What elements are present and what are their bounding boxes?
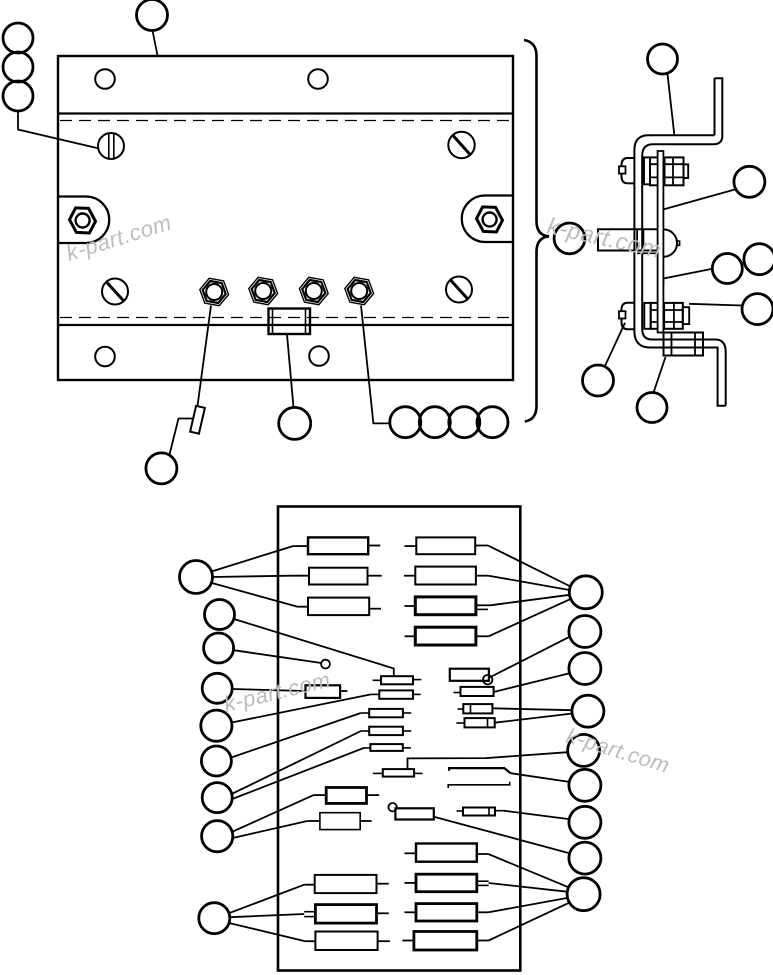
- bar inner bracket lines: [637, 229, 643, 250]
- screw top-left: [98, 133, 124, 159]
- clip upper line: [449, 768, 511, 773]
- callout L7: [202, 783, 232, 813]
- fuse S5: [454, 687, 494, 696]
- leader L1 to F3: [211, 583, 298, 607]
- callout 18: [637, 393, 667, 423]
- fuse I2: [304, 905, 389, 924]
- hole bottom-left: [95, 347, 115, 367]
- leader H1 to R9: [488, 854, 568, 887]
- fuse H2: [405, 874, 489, 892]
- screw top-right: [448, 132, 474, 158]
- screw bottom-right: [446, 277, 472, 303]
- callout 5: [146, 453, 177, 484]
- fuse holder S6: [458, 704, 493, 713]
- callout 15: [744, 244, 773, 275]
- ring terminal ring: [483, 675, 492, 684]
- leader callout16 to bolt tip: [689, 304, 742, 306]
- leader L3 to tiny circle: [234, 650, 322, 663]
- leader G2 to R1: [489, 576, 570, 590]
- fuse G2: [404, 567, 489, 585]
- bracket web outer edge: [634, 150, 650, 348]
- callout 7: [390, 407, 421, 438]
- fuse G3: [405, 597, 491, 615]
- callout 8: [419, 407, 450, 438]
- callout 4: [3, 81, 33, 111]
- plate lower fold line: [58, 324, 513, 326]
- bracket bottom flange upper line with corner: [652, 340, 726, 406]
- callout R2: [569, 616, 601, 648]
- backing strip (white filled, occludes nuts): [658, 151, 664, 333]
- terminal nut 2: [249, 277, 278, 304]
- leader G3 to R1: [490, 595, 570, 606]
- fuse G4: [405, 627, 489, 645]
- upper screw head: [622, 158, 635, 183]
- upper hex nut side view: [650, 157, 684, 185]
- leader L5 to S2: [232, 694, 371, 722]
- cable tag: [190, 406, 205, 434]
- leader S7 to R4: [495, 714, 573, 723]
- tiny index circle: [321, 660, 330, 669]
- leader L1 to F1: [212, 546, 293, 571]
- ring terminal plate: [450, 669, 489, 681]
- left tab lug: [58, 197, 109, 244]
- leader L6 to S3: [231, 713, 360, 758]
- lower screw slot: [619, 311, 626, 318]
- callout R7: [569, 806, 601, 838]
- fuse S4b: [364, 744, 411, 751]
- hole top-left: [95, 69, 115, 89]
- callout 13: [734, 166, 765, 197]
- leader S5 to R3: [494, 673, 569, 692]
- relay block: [306, 685, 348, 698]
- terminal nut 4: [345, 277, 374, 304]
- clip lower line: [448, 782, 510, 788]
- leader L4 to relay: [232, 689, 305, 691]
- callout L4: [202, 673, 232, 703]
- fuse F3: [298, 598, 381, 616]
- leader callout18 to foot: [654, 357, 666, 393]
- curly brace: [524, 40, 549, 422]
- callout R5: [568, 734, 600, 766]
- callout 12: [648, 44, 678, 74]
- leader H2 to R9: [489, 883, 567, 892]
- right tab lug: [462, 196, 513, 243]
- leader L2 to S1: [234, 619, 394, 676]
- callout 9: [449, 407, 480, 438]
- bracket top lip outer edge with corner: [713, 78, 722, 144]
- leader clip to R6: [511, 773, 570, 782]
- plate fuse link end line left: [272, 309, 274, 335]
- plate fuse link end line right: [305, 309, 307, 335]
- right tab hex inner circle: [483, 213, 497, 227]
- callout R3: [569, 653, 601, 685]
- leader nut4 to callout row: [361, 306, 389, 424]
- callout 6: [279, 407, 311, 439]
- foot plate: [664, 333, 704, 356]
- leader S9 to R8: [434, 817, 570, 854]
- plate upper dashed line: [60, 120, 513, 122]
- fuse S2: [371, 690, 421, 698]
- callout L6: [201, 746, 231, 776]
- left tab hex inner circle: [76, 214, 90, 228]
- lower bolt tip: [683, 307, 689, 324]
- leader G4 to R1: [489, 599, 571, 637]
- plate fuse link: [269, 309, 311, 335]
- bracket bottom flange lower line: [650, 348, 726, 406]
- leader tag to callout 5: [170, 419, 193, 455]
- support bar to brace: [598, 229, 658, 250]
- leader L9 to I2: [230, 914, 304, 917]
- leader L8 to B2: [233, 821, 308, 838]
- fuse F2: [291, 568, 382, 585]
- callout R6: [569, 769, 601, 801]
- fuse S9 body: [395, 808, 433, 819]
- upper washer: [644, 157, 650, 184]
- callout R8: [569, 842, 601, 874]
- leader G1 to R1: [488, 546, 571, 587]
- callout R1: [569, 576, 602, 609]
- upper bolt tip: [684, 164, 689, 178]
- hole bottom-right: [309, 346, 329, 366]
- fuse H4: [402, 932, 488, 951]
- fuse holder S7: [456, 718, 494, 727]
- callout L3: [204, 633, 234, 663]
- leader L9 to I3: [229, 923, 305, 941]
- callout R9: [567, 878, 600, 911]
- leader fuse link to callout 6: [287, 335, 294, 408]
- leader L7 to S4: [232, 731, 361, 794]
- lower washer: [644, 303, 650, 329]
- callout 17: [583, 365, 614, 396]
- leader ring to R2: [490, 637, 570, 678]
- callout L1: [180, 561, 213, 594]
- leader L8 to B1: [232, 795, 314, 832]
- leader callout12 to bracket: [668, 74, 675, 135]
- callout R4: [572, 695, 604, 727]
- callout L8: [202, 821, 233, 852]
- bracket top lip inner edge: [714, 78, 716, 135]
- callout 3: [3, 52, 33, 82]
- callout L5: [201, 710, 232, 741]
- leader nut1 to tag: [198, 306, 212, 407]
- leader L7 to S4b: [232, 748, 364, 799]
- fuse S4: [361, 727, 412, 735]
- fuse H3: [405, 904, 489, 921]
- fuse G1: [405, 537, 489, 554]
- callout 14: [712, 254, 742, 284]
- callout 2: [3, 23, 33, 53]
- fuse H1: [405, 844, 489, 862]
- bracket web inner edge: [642, 156, 652, 340]
- plate lower dashed line: [60, 317, 513, 319]
- fuse B1: [314, 788, 380, 804]
- callout 1 top: [137, 0, 168, 31]
- mounting plate outline: [58, 56, 513, 380]
- svg-text:k-part.com: k-part.com: [545, 212, 664, 262]
- lower hex nut side view: [651, 303, 683, 329]
- fuse S1: [373, 676, 422, 684]
- foot plate inner lines: [672, 333, 696, 356]
- fuse Sc: [373, 769, 423, 777]
- lower screw head: [622, 303, 635, 330]
- fuse F1: [293, 537, 380, 554]
- callout L9: [199, 903, 230, 934]
- leader H3 to R9: [489, 898, 568, 912]
- leader callout17 to lower screw: [605, 323, 626, 367]
- callout 11 brace: [554, 223, 585, 254]
- callout L2: [205, 600, 235, 630]
- bracket top flange upper line: [634, 135, 714, 150]
- callout 10: [477, 407, 508, 438]
- leader H4 to R9: [489, 903, 570, 941]
- leader callouts to screw: [18, 111, 99, 149]
- leader L9 to I1: [229, 885, 304, 914]
- screw bottom-left: [102, 279, 128, 305]
- fuse I1: [304, 875, 389, 893]
- leader S6 to R4: [492, 708, 572, 710]
- leader callout13 to strip: [664, 190, 735, 210]
- fuse S3: [361, 709, 412, 717]
- fuse B2: [307, 813, 371, 830]
- leader callout14 to strip: [663, 269, 712, 285]
- leader S8 to R7: [504, 811, 569, 819]
- fuse box outline: [278, 507, 520, 971]
- right tab hex nut: [477, 207, 503, 232]
- leader callout1 to plate: [153, 31, 158, 56]
- leader Sc to R5: [408, 752, 568, 769]
- leader L1 to F2: [213, 576, 291, 577]
- fuse I3: [305, 932, 390, 951]
- plate upper fold line: [58, 112, 513, 114]
- upper screw slot: [619, 166, 626, 173]
- bar washer line: [637, 252, 658, 254]
- centre screw head side view: [663, 229, 677, 256]
- terminal nut 3: [299, 277, 328, 304]
- centre screw slot: [676, 241, 680, 245]
- terminal nut 1: [200, 278, 229, 305]
- svg-text:k-part.com: k-part.com: [63, 210, 174, 266]
- callout 16: [742, 294, 773, 325]
- left tab hex nut: [70, 208, 96, 233]
- fuse S8: [457, 808, 504, 816]
- hole top-right: [308, 69, 328, 89]
- fuse S9 ring: [388, 803, 396, 811]
- bracket top flange lower line: [642, 144, 713, 156]
